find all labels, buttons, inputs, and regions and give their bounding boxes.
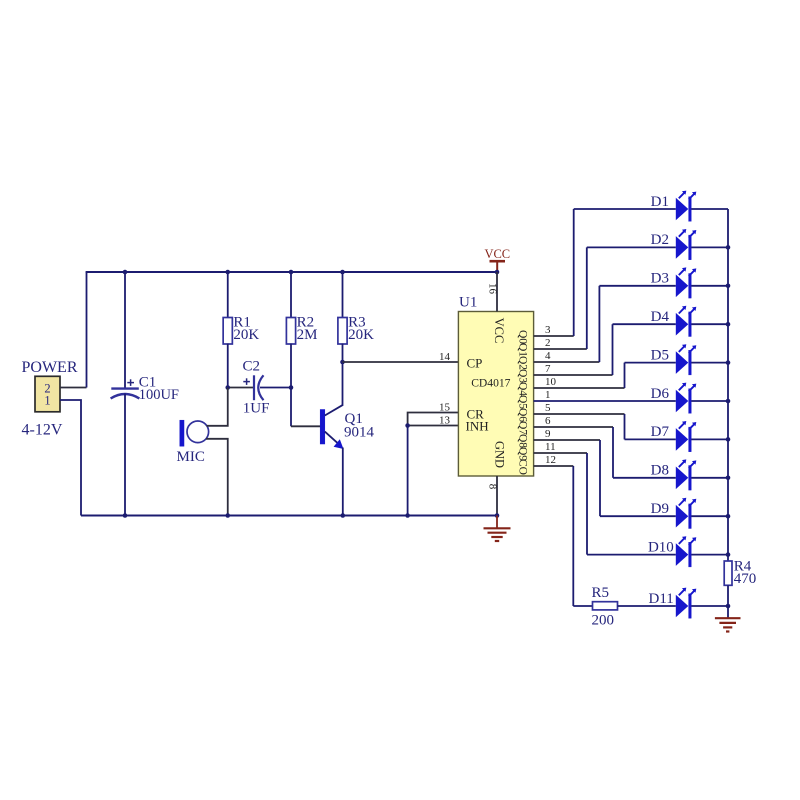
wire CR-INH down to bottom rail — [407, 426, 409, 516]
wire cathode D11 to common rail — [691, 605, 728, 607]
wire MIC bottom terminal — [206, 439, 228, 516]
LED D10 — [676, 543, 689, 566]
node top rail / R3 — [340, 270, 345, 275]
wire pin 9 riser to LED row — [599, 440, 601, 516]
wire MIC top terminal — [207, 388, 228, 426]
svg-text:C2: C2 — [243, 358, 261, 374]
wire cathode D8 to common rail — [691, 477, 728, 479]
wire pin 8 GND of U1 — [496, 476, 498, 516]
svg-text:D6: D6 — [651, 386, 670, 402]
wire R4 to ground — [727, 585, 729, 617]
svg-text:D1: D1 — [651, 194, 669, 210]
svg-text:10: 10 — [545, 376, 557, 388]
svg-text:12: 12 — [545, 454, 556, 466]
wire pin1 of J1 down to bottom rail — [60, 400, 81, 516]
node rail / D5 — [726, 360, 731, 365]
node R2 / C2 right — [289, 385, 294, 390]
svg-text:GND: GND — [493, 441, 507, 468]
node rail / D8 — [726, 476, 731, 481]
LED D11 — [676, 595, 689, 618]
svg-text:VCC: VCC — [484, 247, 510, 261]
wire R5 to LED D11 — [618, 605, 676, 607]
wire INH pin 13 — [408, 425, 459, 427]
svg-text:U1: U1 — [459, 295, 477, 311]
svg-text:16: 16 — [486, 283, 498, 295]
svg-text:100UF: 100UF — [139, 387, 179, 403]
resistor R3 20K — [342, 272, 344, 319]
wire pin 7 riser to LED row — [612, 324, 614, 375]
node top rail / R2 — [289, 270, 294, 275]
node rail / D10 — [726, 552, 731, 557]
svg-text:2: 2 — [545, 337, 551, 349]
wire pin 16 VCC of U1 — [496, 272, 498, 312]
resistor R5 200 — [573, 605, 592, 607]
node rail / D3 — [726, 284, 731, 289]
transistor Q1 9014 — [290, 388, 292, 427]
op-amp U1 CD4017 body — [458, 312, 533, 477]
node R1 / C2 left — [225, 385, 230, 390]
wire Q1 emitter — [325, 432, 338, 444]
wire Q1 collector — [325, 405, 343, 416]
wire anode feed D9 — [600, 515, 676, 517]
LED D1 — [676, 198, 689, 221]
node bottom rail / pin8 — [495, 513, 500, 518]
wire cathode D10 to common rail — [691, 554, 728, 556]
wire Q1 base — [291, 425, 320, 427]
svg-text:4-12V: 4-12V — [22, 422, 63, 439]
svg-text:1: 1 — [44, 394, 50, 408]
node bottom rail / Q1 emitter — [341, 513, 346, 518]
svg-text:7: 7 — [545, 363, 551, 375]
wire pin 10 riser to LED row — [624, 363, 626, 388]
wire anode feed D10 — [587, 554, 676, 556]
svg-text:200: 200 — [592, 613, 615, 629]
node bottom rail / CR-INH — [405, 513, 410, 518]
wire cathode D5 to common rail — [691, 362, 728, 364]
svg-text:2M: 2M — [297, 327, 318, 343]
ground bottom right — [715, 617, 741, 619]
svg-text:13: 13 — [439, 415, 451, 427]
wire cathode D2 to common rail — [691, 246, 728, 248]
resistor R4 470 — [724, 561, 732, 585]
wire pin2 of J1 to left rail — [60, 387, 87, 389]
wire left rail vertical — [86, 272, 88, 388]
connector J1 POWER — [35, 376, 60, 412]
node top rail / R1 — [225, 270, 230, 275]
microphone MIC — [180, 420, 184, 446]
LED D7 — [676, 428, 689, 451]
LED D2 — [676, 236, 689, 259]
wire LED common rail — [727, 209, 729, 562]
svg-text:D8: D8 — [651, 463, 669, 479]
wire anode feed D3 — [599, 285, 675, 287]
wire anode feed D1 — [574, 208, 676, 210]
wire bottom ground rail — [81, 515, 497, 517]
svg-text:INH: INH — [466, 419, 489, 434]
wire anode feed D2 — [587, 246, 676, 248]
capacitor C1 100UF — [124, 272, 126, 389]
wire top supply rail — [86, 271, 497, 273]
svg-text:9014: 9014 — [344, 425, 375, 441]
wire anode feed D5 — [625, 362, 676, 364]
wire CR pin 15 — [408, 413, 459, 426]
capacitor C2 1UF — [228, 387, 254, 389]
svg-text:D10: D10 — [648, 539, 674, 555]
wire pin 5 riser to LED row — [624, 414, 626, 439]
LED D6 — [676, 390, 689, 413]
svg-text:1UF: 1UF — [243, 400, 270, 416]
svg-text:14: 14 — [439, 351, 451, 363]
node rail / D6 — [726, 399, 731, 404]
svg-text:4: 4 — [545, 350, 551, 362]
svg-text:D3: D3 — [651, 271, 669, 287]
node rail / D4 — [726, 322, 731, 327]
wire pin 11 riser to LED row — [586, 453, 588, 555]
svg-text:D9: D9 — [651, 501, 669, 517]
node rail / D9 — [726, 514, 731, 519]
wire pin 6 riser to LED row — [612, 427, 614, 478]
LED D3 — [676, 275, 689, 298]
wire anode feed D4 — [613, 323, 676, 325]
wire pin 12 riser to LED row — [572, 466, 574, 606]
wire cathode D4 to common rail — [691, 323, 728, 325]
svg-text:11: 11 — [545, 441, 556, 453]
wire cathode D6 to common rail — [691, 400, 728, 402]
LED D9 — [676, 505, 689, 528]
svg-text:CP: CP — [467, 355, 483, 370]
resistor R1 20K — [227, 272, 229, 319]
wire pin 4 riser to LED row — [598, 286, 600, 362]
svg-text:CO: CO — [517, 459, 529, 475]
svg-text:8: 8 — [487, 484, 499, 490]
svg-text:POWER: POWER — [22, 359, 78, 376]
svg-text:15: 15 — [439, 401, 451, 413]
node rail / D7 — [726, 437, 731, 442]
wire cathode D7 to common rail — [691, 438, 728, 440]
LED D5 — [676, 351, 689, 374]
LED D4 — [676, 313, 689, 336]
node rail / D2 — [726, 245, 731, 250]
wire pin 1 to LED D6 — [534, 400, 676, 402]
wire anode feed D7 — [625, 438, 676, 440]
svg-text:D11: D11 — [649, 591, 674, 607]
resistor R2 2M — [290, 272, 292, 319]
svg-text:R5: R5 — [592, 585, 610, 601]
svg-text:470: 470 — [734, 571, 757, 587]
svg-text:CD4017: CD4017 — [471, 376, 510, 389]
wire cathode D9 to common rail — [691, 515, 728, 517]
LED D8 — [676, 467, 689, 490]
svg-text:6: 6 — [545, 415, 551, 427]
svg-text:5: 5 — [545, 402, 551, 414]
svg-text:20K: 20K — [348, 327, 374, 343]
svg-text:D5: D5 — [651, 347, 669, 363]
svg-text:VCC: VCC — [492, 318, 506, 344]
node R3 / CP / Q1 collector — [340, 360, 345, 365]
svg-text:3: 3 — [545, 324, 551, 336]
svg-text:D7: D7 — [651, 424, 670, 440]
ground below U1 — [496, 516, 498, 529]
node top rail / C1 — [123, 270, 128, 275]
wire CP pin 14 — [343, 361, 459, 363]
node rail / D11 — [726, 604, 731, 609]
svg-text:9: 9 — [545, 428, 551, 440]
node bottom rail / MIC — [225, 513, 230, 518]
node CR / INH tie — [405, 423, 410, 428]
svg-text:20K: 20K — [233, 327, 259, 343]
wire pin 2 riser to LED row — [586, 247, 588, 349]
wire cathode D1 to common rail — [691, 208, 728, 210]
svg-text:MIC: MIC — [177, 449, 205, 465]
svg-text:1: 1 — [545, 389, 551, 401]
wire cathode D3 to common rail — [691, 285, 728, 287]
wire anode feed D8 — [613, 477, 676, 479]
node bottom rail / C1 — [123, 513, 128, 518]
svg-text:D2: D2 — [651, 232, 669, 248]
wire pin 3 riser to LED row — [573, 209, 575, 336]
node top rail / VCC / pin16 — [495, 270, 500, 275]
svg-text:D4: D4 — [651, 309, 670, 325]
